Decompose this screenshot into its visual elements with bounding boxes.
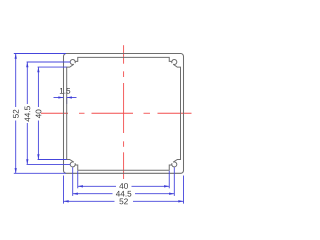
text 40 (left, rotated) bbox=[36, 110, 42, 119]
text 52 (bottom) bbox=[119, 198, 127, 204]
dimension 40 left (line + arrows) bbox=[37, 67, 39, 107]
extension lines, left side dims bbox=[14, 53, 66, 55]
text 40 (bottom) bbox=[119, 183, 128, 189]
wall-thickness dim extension overlays (under profile) bbox=[64, 98, 67, 105]
dimension 44.5 bottom (line + arrows) bbox=[73, 193, 113, 195]
dimension 1.5 wall thickness (lines + arrows) bbox=[54, 97, 64, 99]
text 44.5 (left, rotated) bbox=[25, 106, 31, 121]
dimension 52 bottom (line + arrows) bbox=[64, 200, 115, 202]
dimension 52 left (line + arrows) bbox=[15, 54, 17, 108]
text 44.5 (bottom) bbox=[116, 191, 131, 197]
horizontal centerline (red dash-dot) bbox=[41, 112, 192, 114]
vertical centerline (red dash-dot) bbox=[123, 45, 125, 179]
dimension 40 bottom (line + arrows) bbox=[78, 185, 116, 187]
extension lines, bottom dims bbox=[63, 176, 65, 204]
text 52 (left, rotated) bbox=[13, 110, 19, 118]
inner profile with 4 corner screw bosses bbox=[67, 57, 181, 170]
dimension 44.5 left (line + arrows) bbox=[26, 62, 28, 104]
outer profile (rounded square extrusion body) bbox=[64, 54, 184, 174]
text 1.5 (wall) bbox=[60, 88, 70, 94]
